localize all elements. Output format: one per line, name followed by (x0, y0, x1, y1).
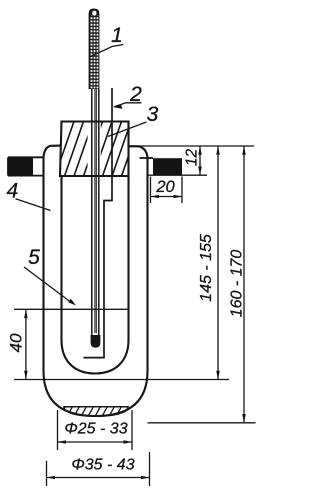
dim 40 (24, 309, 28, 379)
svg-text:4: 4 (6, 180, 18, 203)
svg-text:40: 40 (6, 333, 25, 352)
top reference line (129, 145, 255, 147)
right collar black block (153, 158, 182, 175)
mid reference line (inner bottom) (14, 379, 229, 381)
thermometer stem (92, 89, 99, 336)
dim 145-155 (216, 146, 220, 380)
bottom lens hatched (58, 402, 138, 420)
dim 20 (151, 177, 183, 204)
label 5 leader (24, 267, 76, 306)
dim 12 (198, 146, 202, 175)
thermometer bulb (91, 335, 101, 348)
svg-text:160 - 170: 160 - 170 (229, 250, 246, 318)
svg-text:Φ25 - 33: Φ25 - 33 (64, 421, 127, 438)
label 3 leader (108, 122, 147, 137)
label 2 leader (113, 103, 142, 109)
dim 160-170 (242, 146, 246, 423)
inner tube 5 walls and round bottom (62, 176, 129, 374)
left collar seal lines (8, 157, 44, 175)
svg-text:Φ35 - 43: Φ35 - 43 (71, 457, 134, 474)
label 1 leader (90, 45, 124, 58)
right collar bottom line (also ref for 12 dim) (148, 174, 208, 176)
liquid level line (14, 308, 129, 310)
bottom reference line (outer bottom) (148, 422, 256, 424)
svg-text:3: 3 (147, 103, 159, 126)
svg-text:12: 12 (184, 149, 201, 167)
svg-text:1: 1 (111, 24, 123, 47)
right collar seal line top (140, 157, 154, 159)
thermometer cap notch (92, 11, 96, 16)
stirrer 2 wire (84, 88, 113, 358)
stopper 3 hatched (54, 119, 151, 180)
svg-text:20: 20 (155, 178, 175, 196)
label 4 leader (16, 199, 51, 211)
svg-text:2: 2 (129, 83, 142, 106)
outer vessel 4 body outline (44, 146, 148, 416)
thermometer 1 scale body (89, 9, 100, 90)
dim phi25-33 (58, 410, 133, 450)
svg-text:5: 5 (28, 246, 40, 269)
dim phi35-43 (47, 452, 150, 486)
left collar black block (8, 157, 33, 175)
svg-text:145 - 155: 145 - 155 (198, 234, 215, 302)
